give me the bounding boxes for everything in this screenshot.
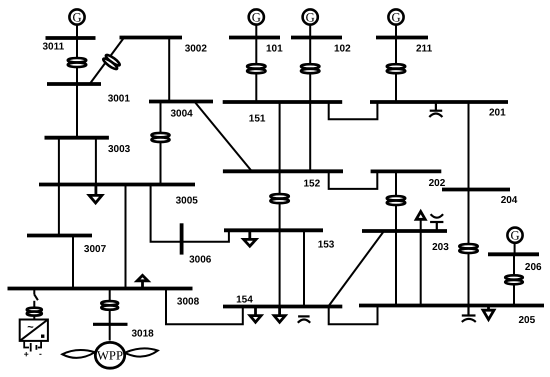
svg-text:3003: 3003 (108, 144, 131, 155)
bus 211 (376, 36, 428, 40)
svg-text:3005: 3005 (176, 196, 199, 207)
wire bus 3004 to bus 3005 vertical x=160 (160, 102, 162, 185)
wire G101 to bus 151 vertical x=256 (255, 25, 257, 103)
transformer 3011-3001 (68, 58, 86, 62)
svg-text:154: 154 (236, 295, 253, 306)
WPP right blade (125, 348, 158, 356)
wire link bus 154 to bus 205 (329, 306, 378, 325)
wire battery branch switch tick (34, 294, 38, 300)
svg-text:203: 203 (432, 242, 449, 253)
load arrow below bus 205 (483, 306, 494, 320)
bus 3011 (46, 36, 96, 40)
wire link bus 152 to bus 202 (329, 171, 378, 189)
bus 204 (442, 188, 510, 192)
wire battery branch stub below bus 3008 (33, 289, 35, 295)
load arrow below bus 3005 (89, 185, 102, 203)
transformer battery branch (27, 308, 42, 312)
bus 102 (291, 36, 342, 40)
wire diagonal bus 3004 to bus 152 (194, 102, 251, 172)
wire bus 3008 to WPP vertical x=109.7 (109, 289, 111, 341)
bus 3005 (39, 183, 195, 187)
transformer 101-151 (247, 64, 265, 68)
transformer 3002-3001 (rotated) (102, 53, 121, 70)
load arrow 2 below bus 154 (274, 307, 285, 323)
bus 153 (224, 228, 323, 232)
bus 3004 (149, 100, 213, 104)
wire diagonal bus 3002 to bus 3001 (90, 36, 125, 84)
bus 3018 (93, 323, 128, 326)
svg-text:205: 205 (519, 315, 536, 326)
bus 3002 (120, 36, 183, 40)
wire link bus 3005 to bus 153 through bus 3006 (151, 185, 229, 242)
transformer 202-203 (387, 196, 405, 200)
wire battery branch to converter (33, 301, 35, 320)
bus 101 (229, 36, 280, 40)
svg-text:101: 101 (266, 43, 283, 54)
svg-text:3004: 3004 (171, 108, 194, 119)
transformer 211-201 (387, 64, 405, 68)
svg-text:3007: 3007 (84, 244, 107, 255)
svg-text:204: 204 (501, 195, 518, 206)
svg-text:206: 206 (525, 262, 542, 273)
svg-text:3001: 3001 (108, 94, 131, 105)
svg-text:3018: 3018 (132, 328, 155, 339)
svg-text:102: 102 (334, 43, 351, 54)
bus 202 (371, 169, 442, 173)
svg-text:202: 202 (429, 178, 446, 189)
wire G3011 to bus 3003 vertical x=77 (76, 25, 78, 138)
bus 203 (362, 229, 447, 233)
svg-text:-: - (39, 349, 42, 359)
wire bus 3007 to bus 3008 vertical x=73 (72, 236, 74, 289)
bus 152 (223, 169, 343, 173)
battery symbol (24, 341, 41, 352)
shunt capacitor above bus 203 (430, 214, 443, 231)
svg-text:211: 211 (416, 43, 433, 54)
wire link bus 3008 to bus 154 (166, 289, 243, 325)
wire G102 to bus 151 vertical x=310 (309, 25, 311, 103)
transformer 204-205 (459, 244, 477, 248)
wire bus 202 to bus 205 vertical x=396 (395, 171, 397, 305)
wire bus 3003 to bus 3005 vertical x=95 (95, 138, 97, 185)
svg-text:151: 151 (249, 113, 266, 124)
svg-text:3002: 3002 (185, 43, 208, 54)
shunt capacitor below bus 154 (298, 316, 310, 322)
shunt capacitor below bus 205 (462, 306, 476, 322)
wire bus 151 to bus 152 vertical x=310 (309, 102, 311, 171)
bus 3007 (27, 234, 92, 238)
svg-text:3008: 3008 (177, 297, 200, 308)
WPP left blade (62, 350, 95, 358)
transformer 152-153 (270, 194, 288, 198)
wire G206 to bus 206 stem (514, 242, 516, 255)
bus 3006 (vertical bar) (180, 223, 184, 254)
wire bus 3003 to bus 3007 vertical x=52 (58, 138, 60, 236)
svg-text:~: ~ (27, 321, 34, 333)
bus 3001 (47, 82, 101, 86)
load arrow below bus 153 (244, 230, 256, 246)
svg-text:201: 201 (489, 108, 506, 119)
transformer 102-151 (301, 64, 319, 68)
generator G 101 (249, 9, 264, 24)
svg-text:G: G (72, 10, 81, 24)
wire bus 151 to bus 154 vertical x=279.5 (279, 102, 281, 307)
svg-text:3011: 3011 (43, 42, 65, 53)
transformer 3004-3005 (152, 133, 170, 137)
wire link bus 151 to bus 201 (329, 102, 378, 119)
wire bus 203 to bus 205 vertical x=420.7 (420, 220, 422, 306)
transformer 206-205 (505, 275, 523, 279)
wire bus 201 to bus 205 vertical x=468.5 (468, 102, 470, 306)
transformer 3008-3018 (101, 301, 118, 305)
WPP wind plant circle (62, 342, 158, 368)
wire bus 153 to bus 154 vertical x=304 (303, 230, 305, 306)
generator G 211 (388, 9, 403, 24)
svg-text:G: G (306, 10, 315, 24)
bus 206 (488, 252, 539, 256)
bus 3008 (8, 287, 193, 291)
wire diagonal bus 203 to bus 154 (328, 231, 384, 307)
bus 154 (223, 305, 342, 309)
bus 3003 (45, 136, 109, 140)
bus 201 (370, 100, 508, 104)
wire bus 3005 to bus 3008 vertical x=125 (125, 185, 127, 289)
load arrow (up) above bus 3008 (137, 275, 148, 288)
svg-text:+: + (24, 349, 29, 359)
generator G 102 (303, 9, 318, 24)
svg-text:G: G (391, 10, 400, 24)
generator G 3011 (69, 9, 84, 24)
svg-text:G: G (252, 10, 261, 24)
svg-text:3006: 3006 (189, 254, 212, 265)
load arrow (up) above bus 203 (416, 212, 425, 220)
wire bus 206 to bus 205 vertical x=514 (513, 254, 515, 305)
wire bus 3002 to bus 3004 vertical x=169 (168, 38, 170, 103)
bus 151 (223, 100, 343, 104)
bus 205 (359, 304, 544, 308)
load arrow 1 below bus 154 (250, 307, 261, 323)
generator G 206 (507, 228, 522, 243)
wire G211 to bus 201 vertical x=396 (395, 25, 397, 103)
shunt capacitor below bus 201 (429, 102, 442, 117)
svg-text:153: 153 (318, 240, 335, 251)
svg-text:WPP: WPP (97, 348, 123, 362)
converter box (battery branch) (20, 320, 48, 341)
svg-text:G: G (510, 229, 519, 243)
svg-text:152: 152 (304, 179, 321, 190)
